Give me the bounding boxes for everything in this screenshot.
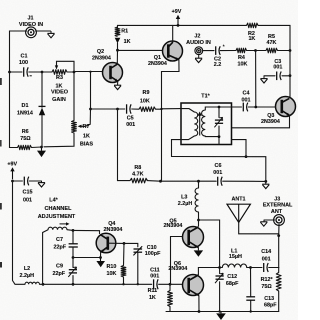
- wire ANT1 to J3 column: [239, 222, 279, 233]
- svg-text:C9: C9: [56, 264, 63, 270]
- wiper arrow R7: [78, 125, 82, 128]
- wire J3 column down: [278, 236, 280, 268]
- svg-text:2N3904: 2N3904: [104, 227, 123, 233]
- svg-text:R4: R4: [238, 55, 245, 61]
- wire +9V rail right: [258, 25, 290, 50]
- junction left rail / video line: [8, 71, 11, 74]
- capacitor C5: [126, 104, 128, 113]
- scan mark edge 4: [0, 262, 2, 268]
- wire R11 top lead: [169, 284, 171, 290]
- capacitor C15: [23, 177, 25, 186]
- wire node to C10 top: [124, 243, 138, 246]
- svg-text:GAIN: GAIN: [52, 97, 66, 103]
- ground at Q5: [194, 250, 203, 256]
- T1 box stub to ground rail: [232, 140, 247, 157]
- svg-text:10K: 10K: [140, 98, 150, 104]
- wire R7 bottom to ground node: [44, 133, 74, 147]
- junction video line / gain drop: [89, 71, 91, 73]
- wire ground rail under T1: [172, 157, 266, 182]
- junction C11 / R11 / bases: [169, 283, 172, 286]
- wire Q2 collector: [116, 50, 118, 64]
- transistor Q1: [163, 41, 183, 61]
- power +9V arrow: [177, 17, 179, 25]
- wire T1 out to C4: [232, 106, 242, 108]
- junction D1 / R6 / ground: [40, 146, 43, 149]
- wire node to Q4 emitter: [73, 257, 101, 259]
- wire Q5 base lead: [171, 237, 183, 285]
- wire +9V column down: [289, 51, 291, 98]
- wire J1 left to left rail: [10, 31, 27, 72]
- wire R7 wiper: [81, 109, 91, 126]
- svg-text:22pF: 22pF: [53, 271, 66, 277]
- junction R9 / column / T1: [160, 108, 162, 110]
- T1 trimmer bottom lead: [218, 126, 220, 144]
- svg-text:+9V: +9V: [172, 9, 182, 15]
- wire R4 to node: [247, 50, 256, 52]
- svg-text:2.2: 2.2: [214, 62, 222, 68]
- svg-text:1K: 1K: [83, 134, 90, 140]
- wire R3 node to Q2 base: [74, 71, 103, 73]
- transistor Q2: [103, 63, 123, 83]
- svg-text:CHANNEL: CHANNEL: [45, 206, 73, 212]
- svg-text:D1: D1: [22, 103, 29, 109]
- ground at J1: [47, 32, 54, 34]
- svg-text:22pF: 22pF: [54, 244, 67, 250]
- wire C9 top lead: [72, 258, 74, 268]
- junction stub / ground rail: [245, 155, 248, 158]
- wire C13 bottom lead: [250, 301, 252, 312]
- connector J3 external ant jack: [274, 215, 285, 226]
- potentiometer R7: [72, 121, 77, 134]
- junction C3 / column: [289, 74, 292, 77]
- svg-text:C14: C14: [261, 249, 271, 255]
- junction C5 line / R8 drop: [116, 108, 119, 111]
- inductor L3: [195, 188, 198, 212]
- svg-text:R9: R9: [143, 90, 150, 96]
- diode D1: [39, 108, 45, 116]
- junction C13 / bottom rail: [250, 310, 252, 312]
- capacitor C1: [23, 67, 25, 76]
- svg-text:BIAS: BIAS: [80, 141, 93, 147]
- junction L4 / C7 / Q4: [72, 229, 75, 232]
- wire R3 right to wiper node: [67, 71, 74, 73]
- svg-text:100pF: 100pF: [145, 251, 161, 257]
- wire video line C1 left: [10, 71, 23, 73]
- wire output line: [198, 267, 219, 269]
- ground at J2: [195, 57, 202, 59]
- junction R8 / emitter column / rail: [159, 180, 162, 183]
- wire audio node down: [255, 51, 257, 108]
- trimmer capacitor C12: [216, 275, 224, 277]
- wire Q1 collector to rail: [172, 25, 174, 42]
- wire D1 node to R3: [42, 71, 52, 73]
- svg-text:J2: J2: [194, 33, 200, 39]
- svg-text:10K: 10K: [106, 271, 116, 277]
- svg-text:1K: 1K: [56, 83, 63, 89]
- junction +9V left node: [11, 180, 14, 183]
- transistor Q5: [183, 227, 204, 248]
- inductor L4: [48, 227, 67, 230]
- wire L4 left column: [43, 230, 48, 285]
- wire R9 to Q1 emitter column: [156, 108, 162, 110]
- potentiometer R3: [52, 70, 67, 75]
- junction C4 / audio drop / Q3 base: [254, 106, 257, 109]
- wire C7 bottom lead: [72, 247, 74, 257]
- transistor Q3: [276, 97, 296, 117]
- svg-text:68pF: 68pF: [264, 302, 277, 308]
- svg-text:2N3904: 2N3904: [168, 266, 187, 272]
- svg-text:001: 001: [150, 274, 159, 280]
- ground at D1 R6: [37, 151, 46, 158]
- resistor R6: [18, 145, 32, 149]
- svg-text:J1: J1: [28, 16, 34, 22]
- junction R3 right / R7 top: [73, 71, 76, 74]
- svg-text:J3: J3: [274, 196, 280, 202]
- junction L1 / C14 / C13: [249, 266, 252, 269]
- wire R8 to mid rail: [147, 180, 161, 183]
- wire J3 down: [278, 224, 280, 235]
- wire R11 bottom lead: [169, 307, 171, 312]
- svg-text:1K: 1K: [248, 36, 255, 42]
- wire C6 to ground dot: [223, 180, 266, 182]
- svg-text:ADJUSTMENT: ADJUSTMENT: [38, 214, 76, 220]
- resistor R2: [247, 23, 259, 28]
- wire R3 wiper loop: [57, 61, 75, 71]
- svg-text:10K: 10K: [238, 62, 248, 68]
- diode D1 cathode bar: [39, 105, 46, 107]
- wire +9V left column: [13, 181, 26, 284]
- wire +9V rail: [118, 24, 247, 26]
- junction mid rail / L3: [197, 180, 200, 183]
- wire C7 top lead: [72, 230, 74, 243]
- capacitor C13: [246, 296, 255, 298]
- connector J1 video in jack: [26, 27, 37, 38]
- T1 secondary top lead: [205, 107, 231, 110]
- channel adjust arrow: [60, 223, 67, 225]
- svg-text:R11: R11: [148, 288, 158, 294]
- resistor R10: [121, 266, 126, 278]
- transformer T1 shield box: [181, 103, 232, 145]
- wire L1 left lead: [220, 267, 223, 269]
- wire J3 to ground: [264, 219, 275, 221]
- transistor Q4: [96, 233, 116, 253]
- wire Q1 emitter down: [162, 60, 180, 182]
- capacitor C2: [215, 46, 217, 55]
- capacitor C6: [217, 177, 219, 186]
- svg-text:C1: C1: [21, 54, 28, 60]
- svg-text:2.2µH: 2.2µH: [178, 201, 193, 207]
- junction C10 / rail: [137, 283, 139, 285]
- svg-text:001: 001: [213, 170, 222, 176]
- junction R10 / rail: [122, 283, 124, 285]
- ground at J3: [260, 221, 267, 223]
- svg-text:Q2: Q2: [97, 49, 104, 55]
- svg-text:2N3904: 2N3904: [148, 61, 167, 67]
- svg-text:001: 001: [262, 256, 271, 262]
- svg-text:2.2µH: 2.2µH: [20, 273, 35, 279]
- svg-text:001: 001: [273, 65, 282, 71]
- trimmer capacitor C9: [69, 269, 77, 271]
- inductor L2: [25, 282, 39, 284]
- wire R6 to ground node: [32, 146, 42, 149]
- junction L2 / L4 column / rail: [42, 283, 45, 286]
- wire mid rail right part: [161, 180, 217, 182]
- svg-text:R7: R7: [83, 124, 90, 130]
- junction T1 secondary top / trimmer: [218, 106, 221, 109]
- resistor R12: [276, 273, 281, 292]
- svg-text:1N914: 1N914: [17, 111, 33, 117]
- junction drop / C5 line: [89, 108, 92, 111]
- svg-text:R8: R8: [134, 165, 141, 171]
- wire node to R5: [256, 50, 267, 52]
- capacitor C14: [263, 263, 265, 272]
- power +9V arrow left: [12, 170, 14, 180]
- ground at mid rail right: [262, 183, 269, 185]
- wire Q6 emitter lead: [198, 296, 200, 312]
- T1 primary bottom lead: [172, 136, 195, 157]
- svg-text:75Ω: 75Ω: [20, 136, 31, 142]
- svg-text:+9V: +9V: [7, 161, 17, 167]
- wire C2 to R4: [220, 50, 236, 52]
- ground at bottom rail: [216, 313, 226, 320]
- scan mark edge 1: [0, 78, 2, 85]
- antenna ANT1: [227, 204, 250, 222]
- resistor R11: [168, 291, 173, 307]
- polarity mark C1: [30, 75, 32, 77]
- wire C12 top lead: [219, 268, 221, 274]
- wire D1 anode: [41, 72, 43, 107]
- wire C14 to R12 column: [269, 267, 279, 269]
- capacitor C10: [134, 248, 143, 250]
- wire R5 to +9V column: [278, 50, 291, 52]
- svg-text:001: 001: [242, 97, 251, 103]
- svg-text:R10: R10: [106, 264, 116, 270]
- T1 trimmer top lead: [218, 107, 220, 118]
- junction Q4 base / R10 / C10: [123, 242, 126, 245]
- T1 secondary winding: [202, 110, 206, 136]
- svg-text:R1: R1: [121, 29, 128, 35]
- wire gain drop: [90, 72, 92, 109]
- junction +9V rail: [177, 24, 180, 27]
- wire R1 bottom to node: [117, 43, 119, 50]
- wire L3 top lead: [198, 181, 200, 188]
- svg-text:C11: C11: [150, 267, 160, 273]
- wire L3 bottom lead: [198, 212, 200, 220]
- T1 tuning slug arrow: [199, 114, 201, 136]
- svg-text:AUDIO IN: AUDIO IN: [186, 40, 211, 46]
- resistor R9: [139, 107, 156, 112]
- wire J1 right to ground: [35, 30, 50, 32]
- junction J3 / ANT1 / R12 column: [277, 234, 280, 237]
- svg-text:R12*: R12*: [261, 277, 274, 283]
- svg-text:100: 100: [19, 60, 28, 66]
- wire Q5 collector: [198, 220, 200, 226]
- T1 primary top lead: [181, 109, 194, 112]
- svg-text:C4: C4: [243, 91, 250, 97]
- wire to C14: [251, 267, 263, 269]
- wire C9 bottom lead: [72, 276, 74, 285]
- resistor R5: [266, 48, 278, 53]
- wire C4 to base node: [248, 106, 275, 108]
- resistor R1: [115, 27, 120, 37]
- wire L1 right lead: [247, 267, 251, 269]
- svg-text:EXTERNAL: EXTERNAL: [263, 203, 293, 209]
- svg-text:C13: C13: [264, 296, 274, 302]
- svg-text:ANT: ANT: [271, 209, 283, 215]
- ground at Q2: [114, 84, 121, 86]
- wire L3 node right: [199, 220, 220, 268]
- svg-text:T1*: T1*: [201, 93, 210, 99]
- wire Q2 emitter to ground: [117, 81, 119, 84]
- wire column to T1 primary: [162, 108, 182, 110]
- wire L4 node to Q4 collector: [73, 230, 100, 233]
- resistor R8: [130, 178, 148, 183]
- capacitor C4: [242, 103, 244, 112]
- T1 primary winding: [194, 112, 197, 136]
- junction video line / D1: [41, 71, 44, 74]
- junction R5 / +9V column: [289, 49, 292, 52]
- svg-text:C5: C5: [127, 116, 134, 122]
- ground at C3: [260, 78, 267, 80]
- wire R10 bottom lead: [123, 277, 125, 284]
- inductor L1: [222, 264, 246, 268]
- wire C3 left to ground: [264, 75, 275, 77]
- wire C5 to R9: [132, 108, 139, 110]
- ground at C15: [38, 182, 45, 184]
- wiper arrow R3: [55, 65, 58, 69]
- wire Q6 collector lead: [197, 268, 199, 275]
- svg-text:R5: R5: [268, 34, 275, 40]
- svg-text:68pF: 68pF: [226, 281, 239, 287]
- wire Q4 emitter lead: [100, 252, 102, 257]
- junction Q6 emitter / bottom rail: [198, 310, 201, 313]
- arrow at R1 bottom: [115, 38, 121, 44]
- wire Q3 emitter: [232, 116, 290, 128]
- wire C10 bottom lead: [137, 252, 139, 284]
- resistor R4: [236, 48, 247, 53]
- wire C12 bottom lead: [219, 282, 221, 312]
- junction R1 / Q1 base / Q2 collector: [116, 49, 119, 52]
- svg-text:2N3904: 2N3904: [261, 119, 280, 125]
- transistor Q6: [183, 275, 204, 296]
- T1 secondary bottom lead: [205, 135, 219, 138]
- wire node to Q1 base: [118, 49, 163, 51]
- svg-text:2N3904: 2N3904: [163, 223, 182, 229]
- scan mark edge 2: [0, 140, 2, 147]
- svg-text:75Ω: 75Ω: [261, 284, 272, 290]
- wire R10 top lead: [123, 243, 126, 265]
- wire C11 to Q6 base: [159, 283, 183, 285]
- wire C13 top lead: [250, 268, 252, 297]
- svg-text:4.7K: 4.7K: [132, 171, 143, 177]
- svg-text:47K: 47K: [267, 40, 277, 46]
- junction Q4 emitter ground: [99, 256, 102, 259]
- svg-text:C15: C15: [23, 190, 33, 196]
- junction C9 / rail: [72, 283, 75, 286]
- junction T1 secondary bottom / trimmer: [218, 135, 221, 138]
- junction R4 R5 audio node: [254, 49, 257, 52]
- wire C5 line: [91, 108, 125, 110]
- junction output / C12 column: [218, 266, 221, 269]
- capacitor C3: [276, 72, 278, 81]
- wire left rail down to R6: [10, 72, 18, 148]
- wire +9V node to C15: [13, 180, 23, 182]
- svg-text:1K: 1K: [124, 39, 131, 45]
- connector J2 audio in jack: [195, 47, 203, 55]
- ground at Q4: [96, 261, 105, 267]
- wire L4 right lead: [67, 229, 73, 232]
- wire J2 to C2: [203, 50, 214, 52]
- wire bottom ground rail: [166, 311, 279, 313]
- svg-text:R6: R6: [22, 129, 29, 135]
- wire Q5 emitter lead: [197, 248, 199, 250]
- wire R12 bottom lead: [278, 291, 280, 312]
- svg-text:R3: R3: [56, 75, 63, 81]
- svg-text:001: 001: [126, 122, 135, 128]
- wire C15 to ground: [29, 180, 41, 182]
- scan mark edge 3: [0, 203, 2, 210]
- svg-text:L2: L2: [24, 266, 30, 272]
- svg-text:L3: L3: [181, 195, 187, 201]
- wire drop to R8: [118, 109, 131, 181]
- T1 trimmer capacitor: [215, 119, 223, 121]
- junction L3 / Q5 collector / C12 branch: [197, 219, 200, 222]
- svg-text:VIDEO: VIDEO: [51, 90, 69, 96]
- capacitor C11: [153, 279, 155, 289]
- svg-text:C6: C6: [215, 163, 222, 169]
- svg-text:C7: C7: [56, 237, 63, 243]
- svg-text:ANT1: ANT1: [231, 197, 245, 203]
- junction C7 / C9 / Q4 emitter: [72, 256, 75, 259]
- wire R1 top: [117, 25, 119, 28]
- wire C3 right: [282, 75, 290, 77]
- junction ground rail / mid rail: [264, 180, 267, 183]
- wire R3 node down to R7: [73, 72, 75, 121]
- svg-text:2N3904: 2N3904: [92, 56, 111, 62]
- capacitor C7: [69, 243, 78, 245]
- svg-text:1K: 1K: [149, 295, 156, 301]
- svg-text:C12: C12: [227, 274, 237, 280]
- svg-text:15µH: 15µH: [229, 254, 242, 260]
- junction C12 / bottom rail: [218, 310, 220, 312]
- svg-text:001: 001: [23, 197, 32, 203]
- wire C1 to D1 node: [29, 71, 42, 73]
- wire R12 top lead: [278, 268, 280, 273]
- wire D1 to ground node: [41, 115, 43, 147]
- wire base rail: [43, 283, 152, 285]
- svg-text:L4*: L4*: [49, 198, 58, 204]
- wire L2 to rail dot: [40, 283, 44, 285]
- wire Q4 base lead: [108, 242, 124, 244]
